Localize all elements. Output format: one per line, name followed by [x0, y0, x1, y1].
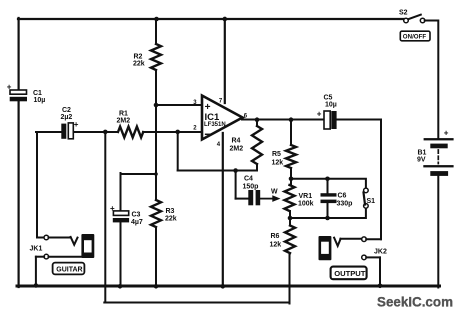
battery B1 9V — [417, 129, 454, 176]
node VR1 top junction — [289, 177, 294, 182]
potentiometer VR1 — [285, 185, 314, 211]
wire bias column R2 to R3 — [155, 70, 157, 200]
wire sustain loop up to R6 — [289, 253, 291, 304]
pin 4 label — [217, 142, 221, 148]
resistor R4 — [230, 126, 263, 164]
svg-text:LF351N: LF351N — [204, 122, 226, 128]
svg-text:22k: 22k — [133, 61, 145, 68]
wire op-amp output — [242, 119, 324, 121]
svg-text:9V: 9V — [417, 157, 426, 164]
svg-text:+: + — [110, 204, 115, 213]
svg-text:C5: C5 — [324, 95, 333, 102]
wire VR1 top lead — [290, 179, 292, 185]
node VR1 bottom junction — [288, 216, 293, 221]
resistor R5 — [272, 145, 297, 168]
wire VR1 top to S1 — [291, 179, 366, 188]
node C3 at rail — [118, 284, 123, 289]
wire JK1 sleeve to rail — [35, 257, 37, 285]
wiper arrow W — [271, 189, 281, 202]
wire sustain loop down — [104, 132, 106, 303]
svg-text:7: 7 — [219, 99, 223, 105]
svg-text:+: + — [317, 110, 322, 119]
resistor R2 — [133, 44, 161, 70]
svg-text:C1: C1 — [33, 90, 42, 97]
wire R2 top lead — [155, 19, 157, 44]
resistor R1 — [117, 111, 144, 138]
wire R5 top lead — [290, 120, 292, 146]
svg-text:B1: B1 — [418, 150, 427, 157]
capacitor C3 — [110, 204, 143, 226]
node R3 at rail — [154, 284, 159, 289]
wire feedback drop from pin 2 — [177, 132, 179, 171]
svg-text:JK2: JK2 — [374, 249, 387, 256]
wire C4 left lead — [236, 198, 249, 200]
svg-text:C2: C2 — [62, 107, 71, 114]
svg-text:+: + — [74, 120, 79, 129]
svg-text:S2: S2 — [399, 10, 408, 17]
label box OUTPUT — [331, 267, 367, 280]
wire R4 bottom lead — [256, 164, 258, 171]
wire C6 top lead — [327, 179, 329, 194]
jack JK2 — [319, 236, 387, 260]
wire R1 to op-amp pin 2 — [143, 131, 202, 133]
node JK2 sleeve at rail — [378, 284, 383, 289]
node C6 top — [325, 177, 330, 182]
wire left column upper (to C1) — [18, 18, 20, 91]
node pin 4 at rail — [221, 284, 226, 289]
svg-text:2M2: 2M2 — [117, 118, 131, 125]
svg-text:22k: 22k — [165, 216, 177, 223]
switch S2 — [399, 10, 425, 23]
resistor R6 — [270, 226, 296, 254]
resistor R3 — [151, 200, 177, 227]
svg-text:C4: C4 — [244, 176, 253, 183]
node JK1 sleeve at rail — [34, 283, 39, 288]
node R2 top on rail — [154, 17, 159, 22]
wire C3 branch horizontal — [121, 173, 157, 175]
wire left column lower (C1 to ground rail) — [18, 101, 20, 287]
svg-text:S1: S1 — [367, 198, 376, 205]
wire C6 bottom lead — [327, 203, 329, 218]
node C6 bottom — [325, 216, 330, 221]
capacitor C2 — [61, 107, 79, 139]
svg-text:OUTPUT: OUTPUT — [334, 269, 366, 278]
svg-text:150p: 150p — [243, 184, 259, 191]
svg-text:R2: R2 — [134, 54, 143, 61]
svg-text:4µ7: 4µ7 — [131, 219, 143, 226]
node sustain feedback junction — [103, 130, 108, 135]
wire S2 to battery — [425, 21, 439, 139]
svg-text:VR1: VR1 — [299, 193, 313, 200]
svg-text:R6: R6 — [271, 233, 280, 240]
svg-text:R4: R4 — [232, 138, 241, 145]
svg-text:100k: 100k — [298, 201, 314, 208]
wire pin 4 column — [222, 133, 224, 287]
svg-text:C3: C3 — [132, 212, 141, 219]
wire input node segment — [36, 131, 61, 133]
wire C3 top lead — [120, 173, 122, 211]
wire C2 to R1 — [74, 131, 119, 133]
node pin 7 at rail — [223, 17, 228, 22]
node C3 tee — [154, 172, 158, 176]
svg-text:R1: R1 — [119, 111, 128, 118]
op-amp U1 IC1 LF351N — [202, 96, 243, 140]
wire pin 3 — [156, 104, 202, 106]
capacitor C1 — [7, 83, 46, 105]
svg-text:R3: R3 — [166, 208, 175, 215]
wire sustain loop bottom — [104, 302, 289, 304]
svg-text:JK1: JK1 — [30, 246, 43, 253]
node feedback tee at pin 2 — [175, 130, 180, 135]
node R5 top junction — [289, 117, 294, 122]
wire R4 top lead — [256, 120, 258, 127]
wire C5 to down column — [337, 120, 381, 240]
node R4 top junction — [255, 117, 260, 122]
jack JK1 — [30, 234, 95, 259]
svg-text:+: + — [7, 83, 12, 92]
pin 2 label — [193, 126, 197, 132]
wire C3 bottom lead — [120, 222, 122, 287]
label box GUITAR — [53, 263, 85, 275]
svg-text:SeekIC.com: SeekIC.com — [377, 295, 453, 311]
svg-text:12k: 12k — [272, 160, 284, 167]
wire wiper arrow lead — [260, 198, 274, 200]
svg-text:ON/OFF: ON/OFF — [403, 34, 427, 41]
svg-text:2µ2: 2µ2 — [61, 114, 73, 121]
wire pin 7 column — [224, 18, 226, 103]
capacitor C4 — [243, 176, 261, 206]
label box ON/OFF — [400, 31, 430, 41]
svg-text:C6: C6 — [338, 193, 347, 200]
svg-text:2M2: 2M2 — [230, 146, 244, 153]
svg-text:10µ: 10µ — [325, 102, 337, 109]
wire R6 top lead — [289, 219, 291, 226]
pin 7 label — [219, 99, 223, 105]
svg-text:GUITAR: GUITAR — [56, 266, 82, 273]
wire battery negative to rail — [437, 176, 439, 288]
wire JK2 sleeve to rail — [379, 257, 381, 286]
svg-text:R5: R5 — [272, 151, 281, 158]
wire VR1 bottom to S1 — [290, 208, 366, 218]
wire feedback horizontal — [178, 170, 257, 172]
capacitor C5 — [317, 95, 337, 130]
wire R5 bottom lead — [290, 168, 292, 179]
switch S1 — [364, 188, 376, 208]
svg-text:330p: 330p — [337, 201, 353, 208]
node pin 3 tee — [154, 103, 159, 108]
watermark SeekIC.com — [377, 295, 453, 311]
svg-text:4: 4 — [217, 142, 221, 148]
svg-text:2: 2 — [193, 126, 197, 132]
svg-text:+: + — [444, 129, 449, 138]
wire JK1 tip column — [36, 132, 38, 238]
wire VR1 bottom lead — [289, 211, 291, 219]
wire top supply rail — [18, 18, 404, 20]
wire bottom ground rail — [17, 285, 440, 288]
pin 6 label — [244, 114, 248, 120]
wire R3 bottom lead — [155, 227, 157, 287]
node C4 tee — [233, 168, 238, 173]
pin 3 label — [193, 100, 197, 106]
svg-text:W: W — [271, 189, 278, 196]
capacitor C6 — [321, 193, 353, 208]
svg-text:12k: 12k — [270, 242, 282, 249]
svg-text:10µ: 10µ — [34, 97, 46, 104]
wire C4 drop — [235, 171, 237, 199]
